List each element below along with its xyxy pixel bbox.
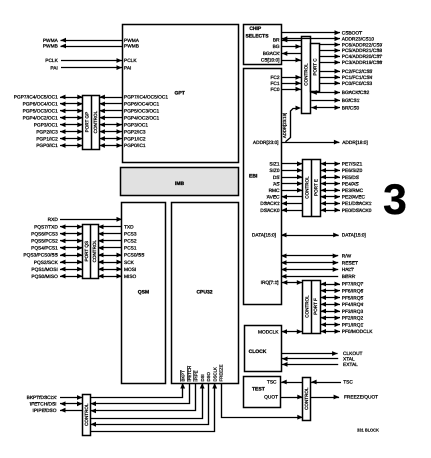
svg-text:CONTROL: CONTROL	[93, 110, 98, 133]
svg-text:DSACK0: DSACK0	[260, 208, 280, 214]
svg-text:PE3/RMC: PE3/RMC	[342, 188, 364, 194]
svg-text:PCS0/SS: PCS0/SS	[124, 253, 144, 259]
svg-text:DSO: DSO	[206, 372, 211, 382]
svg-text:PWMA: PWMA	[124, 38, 140, 44]
svg-text:AS: AS	[273, 181, 279, 187]
svg-text:XTAL: XTAL	[343, 357, 355, 363]
svg-text:DS: DS	[273, 175, 280, 181]
svg-text:FREEZE/QUOT: FREEZE/QUOT	[344, 395, 378, 401]
svg-text:PF5/IRQ5: PF5/IRQ5	[342, 295, 364, 301]
svg-text:PGP7/IC4/OC5/OC1: PGP7/IC4/OC5/OC1	[14, 95, 58, 101]
svg-text:DSCLK: DSCLK	[212, 367, 217, 381]
svg-text:MOSI: MOSI	[124, 267, 136, 273]
svg-text:PAI: PAI	[50, 65, 57, 71]
svg-text:PCS3: PCS3	[124, 232, 137, 238]
svg-text:FC1: FC1	[270, 81, 279, 87]
svg-text:BG/CS1: BG/CS1	[342, 98, 360, 104]
svg-text:ADDR23/CS10: ADDR23/CS10	[342, 36, 375, 42]
svg-text:PCS2: PCS2	[124, 239, 137, 245]
svg-text:ADDR[23:0]: ADDR[23:0]	[253, 140, 279, 146]
svg-text:PQS1/MOSI: PQS1/MOSI	[31, 267, 57, 273]
svg-text:CONTROL: CONTROL	[304, 295, 309, 318]
svg-text:HALT: HALT	[342, 267, 354, 273]
svg-text:CS[10:0]: CS[10:0]	[261, 58, 280, 64]
svg-text:PGP2/IC3: PGP2/IC3	[124, 129, 146, 135]
svg-text:PGP7/IC4/OC5/OC1: PGP7/IC4/OC5/OC1	[124, 95, 168, 101]
svg-text:IFETCH/DSI: IFETCH/DSI	[30, 402, 57, 408]
svg-text:R/W: R/W	[342, 254, 352, 260]
svg-text:CONTROL: CONTROL	[305, 176, 310, 199]
svg-text:PWMB: PWMB	[43, 44, 58, 50]
svg-text:331 BLOCK: 331 BLOCK	[357, 427, 379, 432]
svg-text:BR: BR	[273, 38, 280, 44]
svg-text:PC5/ADDR21/CS8: PC5/ADDR21/CS8	[342, 48, 383, 54]
svg-text:DATA[15:0]: DATA[15:0]	[252, 233, 276, 239]
svg-text:PGP6/OC4/OC1: PGP6/OC4/OC1	[23, 102, 59, 108]
svg-text:BKPT/DSCLK: BKPT/DSCLK	[27, 395, 58, 401]
svg-text:PGP1/IC2: PGP1/IC2	[124, 136, 146, 142]
svg-text:PF6/IRQ6: PF6/IRQ6	[342, 289, 364, 295]
svg-text:PE7/SIZ1: PE7/SIZ1	[342, 162, 363, 168]
svg-text:PGP6/OC4/OC1: PGP6/OC4/OC1	[124, 102, 160, 108]
svg-text:CONTROL: CONTROL	[84, 403, 89, 426]
svg-text:IPIPE: IPIPE	[193, 370, 198, 381]
svg-text:PC4/ADDR20/CS7: PC4/ADDR20/CS7	[342, 54, 383, 60]
svg-text:DATA[15:0]: DATA[15:0]	[342, 233, 366, 239]
svg-text:PWMA: PWMA	[43, 38, 59, 44]
svg-text:PQS0/MISO: PQS0/MISO	[31, 274, 58, 280]
svg-text:MISO: MISO	[124, 274, 137, 280]
svg-text:EXTAL: EXTAL	[343, 362, 358, 368]
svg-text:PCLK: PCLK	[124, 58, 137, 64]
svg-text:RESET: RESET	[342, 260, 358, 266]
svg-text:QSM: QSM	[138, 289, 149, 295]
svg-text:PC3/ADDR19/CS6: PC3/ADDR19/CS6	[342, 60, 383, 66]
svg-text:PORT QS: PORT QS	[84, 241, 89, 262]
svg-text:IFETCH: IFETCH	[187, 366, 192, 382]
svg-text:FC0: FC0	[270, 87, 279, 93]
svg-text:PF1/IRQ1: PF1/IRQ1	[342, 322, 364, 328]
svg-text:CLOCK: CLOCK	[249, 349, 267, 355]
svg-text:PCLK: PCLK	[45, 58, 58, 64]
svg-text:DSI: DSI	[200, 374, 205, 381]
svg-text:IMB: IMB	[175, 181, 185, 187]
svg-text:PQS6/PCS3: PQS6/PCS3	[31, 232, 58, 238]
svg-text:CONTROL: CONTROL	[303, 63, 308, 86]
svg-text:PGP0/IC1: PGP0/IC1	[124, 143, 146, 149]
svg-text:AVEC: AVEC	[267, 195, 280, 201]
svg-text:TSC: TSC	[267, 380, 277, 386]
svg-text:PGP5/OC3/OC1: PGP5/OC3/OC1	[124, 109, 160, 115]
svg-text:FC2: FC2	[270, 75, 279, 81]
svg-text:MODCLK: MODCLK	[258, 329, 279, 335]
svg-text:PWMB: PWMB	[124, 44, 139, 50]
svg-text:PGP1/IC2: PGP1/IC2	[36, 136, 58, 142]
svg-text:PC2/FC2/CS5: PC2/FC2/CS5	[342, 69, 373, 75]
svg-text:PC0/FC0/CS3: PC0/FC0/CS3	[342, 81, 373, 87]
svg-text:RXD: RXD	[48, 217, 59, 223]
svg-text:PQS2/SCK: PQS2/SCK	[34, 260, 59, 266]
svg-text:DSACK1: DSACK1	[260, 201, 280, 207]
svg-text:PGP5/OC3/OC1: PGP5/OC3/OC1	[23, 109, 59, 115]
svg-text:CONTROL: CONTROL	[304, 387, 309, 410]
svg-text:BR/CS0: BR/CS0	[342, 105, 360, 111]
svg-text:BGACK: BGACK	[263, 51, 281, 57]
svg-text:PF7/IRQ7: PF7/IRQ7	[342, 282, 364, 288]
svg-text:PQS3/PCS0/SS: PQS3/PCS0/SS	[23, 253, 57, 259]
svg-text:TSC: TSC	[343, 380, 353, 386]
svg-text:PF0/MODCLK: PF0/MODCLK	[342, 329, 373, 335]
svg-text:CONTROL: CONTROL	[92, 240, 97, 263]
svg-text:PCS1: PCS1	[124, 246, 137, 252]
svg-text:PF3/IRQ3: PF3/IRQ3	[342, 309, 364, 315]
svg-text:PGP4/OC2/OC1: PGP4/OC2/OC1	[124, 116, 160, 122]
svg-text:PORT E: PORT E	[314, 179, 319, 196]
svg-text:PQS7/TXD: PQS7/TXD	[34, 225, 58, 231]
svg-text:BERR: BERR	[342, 274, 356, 280]
svg-text:CLKOUT: CLKOUT	[343, 351, 363, 357]
svg-text:PGP3/OC1: PGP3/OC1	[124, 122, 148, 128]
svg-text:BG: BG	[273, 44, 280, 50]
svg-text:PF2/IRQ2: PF2/IRQ2	[342, 316, 364, 322]
svg-text:PORT C: PORT C	[312, 58, 317, 76]
svg-text:PE6/SIZ0: PE6/SIZ0	[342, 168, 363, 174]
svg-text:IPIPE/DSO: IPIPE/DSO	[33, 408, 57, 414]
svg-text:PQS5/PCS2: PQS5/PCS2	[31, 239, 58, 245]
svg-text:PORT F: PORT F	[313, 298, 318, 315]
svg-text:GPT: GPT	[175, 90, 185, 96]
svg-text:PGP4/OC2/OC1: PGP4/OC2/OC1	[23, 116, 59, 122]
svg-text:PE1/DSACK1: PE1/DSACK1	[342, 201, 372, 207]
svg-text:SCK: SCK	[124, 260, 135, 266]
svg-text:PAI: PAI	[124, 65, 131, 71]
svg-text:TEST: TEST	[252, 386, 265, 392]
svg-text:PE4/AS: PE4/AS	[342, 181, 359, 187]
svg-text:EBI: EBI	[249, 173, 258, 179]
svg-text:3: 3	[383, 176, 407, 224]
svg-text:PE2/AVEC: PE2/AVEC	[342, 195, 366, 201]
svg-text:PC1/FC1/CS4: PC1/FC1/CS4	[342, 75, 373, 81]
svg-text:CHIP: CHIP	[249, 26, 262, 32]
svg-text:ADDR[18:0]: ADDR[18:0]	[342, 140, 368, 146]
svg-text:PGP0/IC1: PGP0/IC1	[36, 143, 58, 149]
svg-text:TXD: TXD	[124, 225, 134, 231]
svg-text:ADDR[23:19]: ADDR[23:19]	[282, 113, 287, 138]
svg-text:PORT GP: PORT GP	[85, 112, 90, 133]
svg-text:BKPT: BKPT	[180, 370, 185, 382]
svg-text:PF4/IRQ4: PF4/IRQ4	[342, 302, 364, 308]
svg-text:PE5/DS: PE5/DS	[342, 175, 359, 181]
svg-text:CSBOOT: CSBOOT	[342, 30, 362, 36]
svg-text:IRQ[7:1]: IRQ[7:1]	[261, 280, 279, 286]
svg-text:PQS4/PCS1: PQS4/PCS1	[31, 246, 58, 252]
svg-text:SIZ0: SIZ0	[269, 168, 279, 174]
svg-text:BGACK/CS2: BGACK/CS2	[342, 90, 370, 96]
svg-text:RMC: RMC	[269, 188, 280, 194]
svg-text:SELECTS: SELECTS	[245, 34, 269, 40]
svg-text:FREEZE: FREEZE	[219, 364, 224, 381]
svg-text:PC6/ADDR22/CS9: PC6/ADDR22/CS9	[342, 42, 383, 48]
svg-text:QUOT: QUOT	[264, 395, 278, 401]
svg-text:PGP3/OC1: PGP3/OC1	[34, 122, 58, 128]
svg-text:CPU32: CPU32	[196, 289, 212, 295]
svg-text:PGP2/IC3: PGP2/IC3	[36, 129, 58, 135]
svg-text:SIZ1: SIZ1	[269, 162, 279, 168]
svg-text:PE0/DSACK0: PE0/DSACK0	[342, 208, 372, 214]
